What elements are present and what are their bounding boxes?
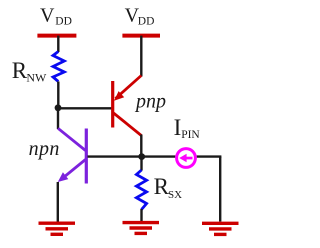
node A junction dot [55, 104, 62, 111]
wire node B to R_SX [140, 157, 142, 171]
ground 1 (under npn emitter) [39, 223, 76, 234]
node B junction dot [138, 153, 145, 160]
Q1 collector diagonal [114, 113, 142, 136]
ground 3 (right) [202, 223, 239, 234]
Q2 emitter arrowhead (npn, points out) [58, 172, 69, 182]
wire node A to Q2 collector (black stub) [57, 108, 59, 129]
label R_NW [12, 58, 47, 85]
wire R_NW to node A [57, 82, 59, 109]
Q2 emitter diagonal [61, 160, 86, 180]
svg-text:R: R [12, 58, 28, 83]
svg-text:pnp: pnp [134, 90, 166, 112]
wire Q1 collector to node B [140, 135, 142, 158]
svg-text:V: V [40, 5, 55, 27]
I_PIN arrow (points left) [179, 154, 192, 162]
resistor R_NW [53, 52, 64, 82]
transistor Q2 npn base bar [85, 129, 88, 184]
label VDD1 [40, 5, 72, 28]
current source I_PIN circle [177, 149, 196, 168]
power rail VDD1 bar [37, 34, 76, 38]
transistor Q1 pnp base bar [111, 81, 114, 128]
label R_SX [154, 174, 183, 201]
svg-text:DD: DD [138, 16, 155, 28]
label VDD2 [125, 5, 155, 28]
svg-text:I: I [174, 115, 182, 140]
wire node B horizontal (Q2 base to I_PIN) [88, 155, 176, 157]
wire node A to Q1 base [58, 107, 113, 109]
svg-text:SX: SX [168, 189, 182, 201]
Q1 emitter arrowhead (pnp, points into base) [114, 91, 124, 101]
wire VDD1 to R_NW [57, 36, 59, 52]
wire VDD2 to Q1 emitter [140, 36, 142, 77]
svg-text:PIN: PIN [181, 129, 200, 141]
label I_PIN [174, 115, 201, 141]
svg-text:NW: NW [26, 71, 47, 85]
svg-text:npn: npn [29, 138, 60, 160]
Q2 collector diagonal [58, 128, 86, 150]
wire R_SX to ground [140, 209, 142, 222]
power rail VDD2 bar [122, 34, 160, 38]
wire Q2 emitter to ground [57, 182, 59, 222]
ground 2 (under R_SX) [123, 223, 160, 234]
svg-text:DD: DD [55, 16, 72, 28]
wire I_PIN to ground (right corner) [219, 157, 221, 222]
resistor R_SX [136, 170, 146, 210]
Q1 emitter diagonal [116, 76, 142, 99]
